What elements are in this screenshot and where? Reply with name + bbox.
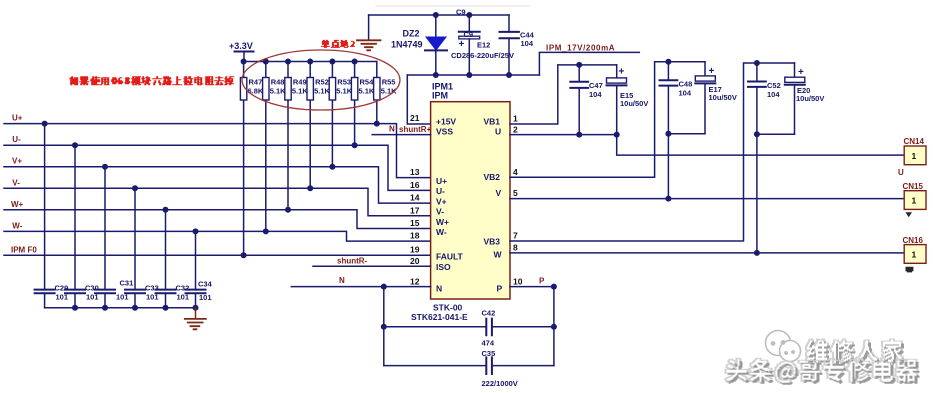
svg-text:P: P — [497, 284, 503, 294]
connector CN15 — [904, 191, 926, 210]
svg-text:C44: C44 — [520, 31, 535, 40]
svg-text:W-: W- — [436, 227, 447, 237]
svg-text:P: P — [539, 277, 545, 286]
net label V (below CN15) — [906, 212, 913, 217]
wire: pin 20 stub (net shuntR-) — [313, 265, 431, 267]
wire: pin 5 V net to CN15 — [510, 198, 904, 200]
wire: V+ bus to pin 14 — [4, 167, 431, 203]
svg-text:18: 18 — [410, 231, 420, 241]
wire: pin 7 VB3 to group3 rail — [510, 63, 795, 241]
svg-text:17: 17 — [410, 205, 420, 215]
resistor R52 — [307, 62, 313, 189]
wire: top rail to DZ2/E12/C44 — [369, 14, 509, 16]
svg-text:C34: C34 — [198, 280, 213, 289]
wire: resistor top rail — [244, 61, 377, 63]
svg-text:104: 104 — [679, 89, 692, 98]
svg-text:C30: C30 — [85, 283, 99, 292]
svg-text:VB1: VB1 — [484, 117, 501, 127]
svg-text:+: + — [619, 67, 625, 78]
svg-text:104: 104 — [589, 90, 602, 99]
svg-text:V: V — [496, 188, 502, 198]
wire: lower rail under DZ2 — [407, 74, 539, 76]
svg-text:1N4749: 1N4749 — [391, 40, 423, 50]
svg-text:104: 104 — [767, 90, 780, 99]
wire: pin 2 U net — [510, 134, 617, 136]
svg-text:R49: R49 — [293, 78, 307, 87]
resistor R54 — [351, 62, 357, 146]
svg-text:C32: C32 — [176, 283, 190, 292]
wire: N ladder left rail — [383, 287, 385, 366]
svg-text:+: + — [709, 66, 715, 77]
svg-text:4: 4 — [513, 167, 518, 177]
junction dot group3 rail — [754, 60, 760, 66]
watermark 头条@哥专修电器 — [728, 361, 919, 384]
svg-text:16: 16 — [410, 180, 420, 190]
svg-text:1: 1 — [912, 151, 917, 161]
capacitor E17 (electrolytic) — [695, 62, 715, 134]
capacitor E12 (electrolytic) — [459, 15, 480, 75]
svg-text:C9: C9 — [456, 8, 466, 17]
svg-text:C9: C9 — [464, 30, 474, 39]
wire: pin 12 / N net — [291, 286, 430, 288]
svg-text:R52: R52 — [315, 78, 329, 87]
svg-text:DZ2: DZ2 — [403, 29, 420, 39]
annotation ellipse (single point ground group) — [242, 50, 400, 110]
svg-text:IPM: IPM — [432, 91, 448, 101]
svg-text:20: 20 — [410, 256, 420, 266]
svg-text:U: U — [898, 168, 904, 177]
svg-text:N: N — [436, 284, 442, 294]
svg-text:6.8K: 6.8K — [248, 87, 264, 96]
junction dot group2 rail — [665, 59, 671, 65]
resistor R48 — [263, 62, 269, 232]
svg-text:C42: C42 — [482, 309, 496, 318]
svg-text:10u/50V: 10u/50V — [796, 94, 824, 103]
svg-text:N: N — [389, 125, 395, 134]
svg-text:CD286-220uF/25V: CD286-220uF/25V — [451, 51, 514, 60]
svg-text:C47: C47 — [589, 81, 603, 90]
resistor R55 — [374, 62, 380, 124]
svg-text:1: 1 — [912, 250, 917, 260]
resistor R53 — [329, 62, 335, 167]
wire: VSS stub (net N / shuntR+) — [372, 134, 430, 136]
svg-text:U+: U+ — [436, 176, 447, 186]
connector CN14 — [904, 146, 926, 165]
faint top artifact line — [376, 5, 530, 7]
svg-text:104: 104 — [521, 39, 534, 48]
svg-text:CN16: CN16 — [903, 236, 924, 245]
svg-text:1: 1 — [912, 196, 917, 206]
ground (bottom left) — [185, 308, 206, 330]
junction dot V net — [665, 196, 671, 202]
svg-text:5.1K: 5.1K — [314, 87, 330, 96]
capacitor E20 (electrolytic) — [785, 63, 805, 134]
svg-text:W+: W+ — [11, 200, 24, 209]
svg-text:101: 101 — [199, 293, 212, 302]
junction dots lower rail — [433, 72, 512, 78]
svg-text:N: N — [339, 276, 345, 285]
svg-text:+15V: +15V — [436, 117, 456, 127]
svg-text:C33: C33 — [145, 283, 159, 292]
wire: pin 8 W net to CN16 — [510, 252, 904, 254]
svg-text:+: + — [798, 67, 804, 78]
resistor R49 — [285, 62, 291, 210]
svg-text:R55: R55 — [382, 78, 396, 87]
svg-text:VB2: VB2 — [484, 172, 501, 182]
svg-text:C31: C31 — [120, 278, 134, 287]
watermark 头条@哥专修电器 edge — [725, 358, 918, 383]
svg-text:W+: W+ — [436, 217, 449, 227]
junction dot group3 bottom — [754, 131, 760, 137]
capacitor C52 — [748, 63, 766, 134]
op-amp module IPM1 (STK621-041-E body) — [431, 102, 510, 299]
wire: IPM F0 bus to pin 19 — [4, 254, 431, 256]
wire: U- bus to pin 16 — [4, 145, 431, 190]
capacitor C33 — [125, 188, 145, 307]
svg-text:15: 15 — [410, 218, 420, 228]
wire: P ladder right rail — [553, 287, 555, 366]
watermark smiley doodle — [766, 331, 801, 362]
wire: W+ bus to pin 15 — [4, 210, 431, 229]
svg-text:8: 8 — [513, 242, 518, 252]
svg-text:VB3: VB3 — [484, 237, 501, 247]
svg-text:C35: C35 — [482, 349, 496, 358]
ground (top, near DZ2) — [357, 15, 381, 50]
svg-text:19: 19 — [410, 245, 420, 255]
wire: group3 drop to W net — [756, 134, 758, 253]
svg-text:U-: U- — [436, 186, 445, 196]
junction dot W net — [754, 250, 760, 256]
capacitor C35 (on lower rung) — [384, 357, 554, 374]
svg-text:shuntR+: shuntR+ — [399, 125, 432, 134]
svg-text:VSS: VSS — [436, 127, 453, 137]
svg-text:474: 474 — [482, 339, 495, 348]
svg-text:E12: E12 — [477, 41, 490, 50]
connector CN16 — [904, 245, 926, 264]
svg-text:+3.3V: +3.3V — [229, 41, 253, 51]
capacitor E15 (electrolytic) — [607, 65, 627, 135]
junction dot group1 rail — [576, 62, 582, 68]
svg-text:C48: C48 — [679, 80, 693, 89]
annotation text 单点地2 — [321, 40, 354, 47]
wire: rail up to IPM_17V net — [539, 52, 639, 75]
svg-text:+: + — [459, 39, 465, 50]
svg-text:shuntR-: shuntR- — [337, 256, 368, 265]
wire: W- bus to pin 18 — [4, 231, 431, 241]
svg-text:U: U — [495, 127, 501, 137]
svg-text:21: 21 — [410, 113, 420, 123]
svg-text:STK-00: STK-00 — [433, 303, 463, 313]
svg-text:IPM F0: IPM F0 — [11, 245, 37, 254]
wire: U drop to CN14 — [617, 135, 905, 156]
svg-text:13: 13 — [410, 167, 420, 177]
svg-text:10: 10 — [513, 277, 523, 287]
junction dots resistor rail — [241, 59, 358, 65]
wire: pin 10 / P net — [510, 286, 554, 288]
zener diode DZ2 — [425, 15, 447, 75]
junction dots U net — [576, 132, 620, 138]
svg-text:R54: R54 — [360, 78, 375, 87]
annotation text 如果使用068模块六路上拉电阻去掉 — [70, 77, 234, 85]
capacitor C44 — [500, 15, 519, 75]
resistor R47 — [240, 62, 246, 256]
svg-text:10u/50V: 10u/50V — [620, 99, 648, 108]
svg-text:U+: U+ — [12, 114, 23, 123]
capacitor C31 — [95, 167, 115, 308]
svg-text:STK621-041-E: STK621-041-E — [411, 312, 468, 322]
watermark 维修人家 — [809, 342, 905, 364]
svg-text:222/1000V: 222/1000V — [482, 379, 518, 388]
svg-text:7: 7 — [513, 231, 518, 241]
capacitor C30 — [65, 145, 85, 308]
svg-text:14: 14 — [410, 193, 420, 203]
capacitor C42 (on upper rung) — [384, 319, 554, 336]
junction dot group2 bottom — [665, 131, 671, 137]
svg-text:C29: C29 — [55, 283, 69, 292]
svg-text:R47: R47 — [249, 78, 263, 87]
svg-text:V-: V- — [12, 178, 20, 187]
svg-text:5.1K: 5.1K — [292, 87, 308, 96]
junction dots top rail — [433, 12, 473, 18]
svg-text:5.1K: 5.1K — [336, 87, 352, 96]
capacitor C34 — [186, 231, 206, 307]
watermark 维修人家 edge — [806, 339, 904, 363]
svg-text:2: 2 — [513, 124, 518, 134]
svg-text:W-: W- — [12, 221, 22, 230]
svg-text:10u/50V: 10u/50V — [709, 93, 737, 102]
wire: capacitor bottom rail — [45, 307, 196, 309]
svg-text:5.1K: 5.1K — [270, 87, 286, 96]
svg-text:R53: R53 — [337, 78, 351, 87]
junction dot P corner — [551, 284, 557, 290]
power +3.3V — [235, 52, 254, 62]
wire: group2 bottom rail — [668, 133, 705, 135]
svg-text:FAULT: FAULT — [436, 252, 464, 262]
wire: group2 drop to V net — [667, 134, 669, 199]
svg-text:5.1K: 5.1K — [359, 87, 375, 96]
capacitor C48 — [660, 62, 678, 134]
wire: V- bus to pin 17 — [4, 188, 431, 215]
svg-text:R48: R48 — [271, 78, 285, 87]
capacitor C32 — [156, 210, 176, 308]
capacitor C47 — [570, 65, 588, 135]
svg-text:5: 5 — [513, 188, 518, 198]
net label W (below CN16) — [906, 267, 914, 273]
wire: U+ bus to pin 13 — [4, 124, 431, 178]
wire: group3 bottom rail — [757, 133, 795, 135]
junction dot N wire — [381, 284, 387, 290]
wire: pin 4 VB2 to group2 rail — [510, 62, 705, 178]
junction dots on bus lines — [42, 121, 380, 259]
svg-text:V+: V+ — [436, 196, 447, 206]
svg-text:IPM_17V/200mA: IPM_17V/200mA — [546, 44, 615, 53]
svg-text:CN15: CN15 — [903, 182, 924, 191]
svg-text:1: 1 — [513, 114, 518, 124]
junction dots upper rung — [381, 324, 557, 330]
svg-text:V-: V- — [436, 207, 444, 217]
svg-text:ISO: ISO — [436, 262, 451, 272]
junction dots bottom rail — [72, 305, 199, 311]
wire: rail to pin 21 — [407, 75, 430, 124]
svg-text:12: 12 — [410, 276, 420, 286]
svg-text:U-: U- — [12, 135, 21, 144]
svg-text:V+: V+ — [12, 157, 22, 166]
svg-text:W: W — [494, 250, 503, 260]
svg-text:C52: C52 — [767, 81, 781, 90]
wire: pin 1 VB1 to group1 rail — [510, 65, 617, 124]
svg-text:CN14: CN14 — [904, 137, 925, 146]
capacitor C29 — [35, 124, 55, 308]
